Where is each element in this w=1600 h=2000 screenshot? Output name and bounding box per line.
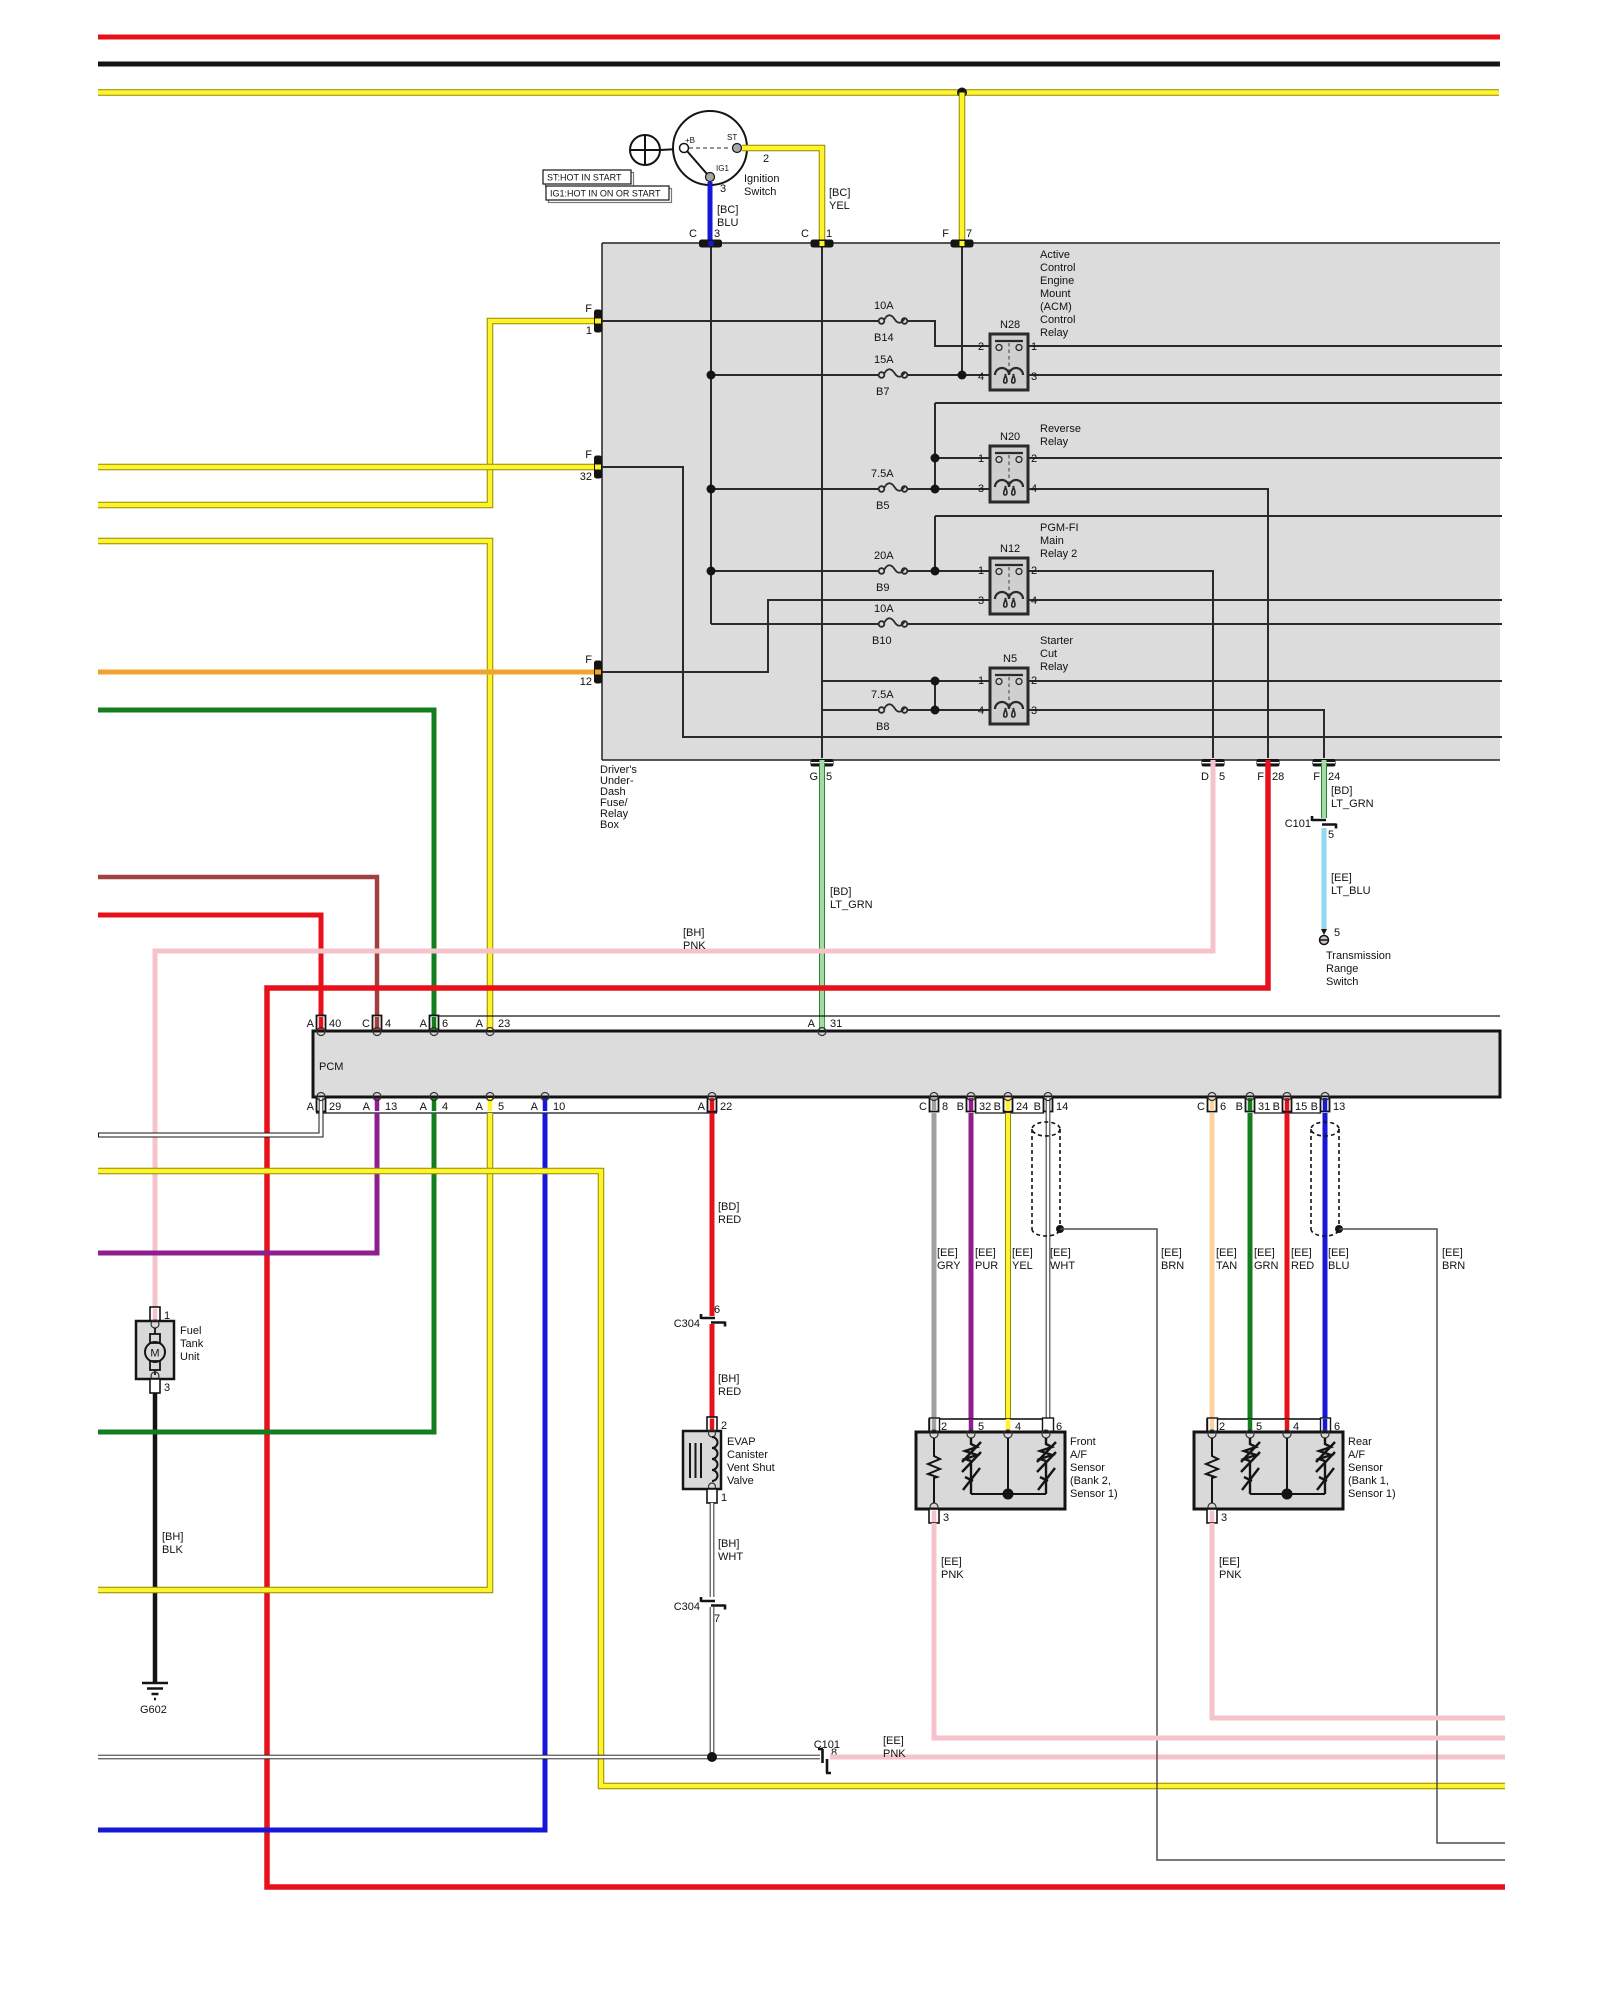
junction B9 node [931,567,940,576]
svg-text:Unit: Unit [180,1351,200,1363]
svg-text:[EE]: [EE] [1328,1247,1349,1259]
svg-text:WHT: WHT [1050,1260,1075,1272]
wire color labels [EE] row [937,1247,1465,1272]
wire: G5 to PCM A31 (LT_GRN) [819,763,825,1031]
svg-text:[BH]: [BH] [162,1531,183,1543]
label: PGM-FI Main Relay 2 [1040,522,1079,560]
svg-text:N28: N28 [1000,319,1020,331]
svg-text:TAN: TAN [1216,1260,1237,1272]
svg-text:Ignition: Ignition [744,173,779,185]
battery positive symbol [630,135,679,165]
svg-text:LT_GRN: LT_GRN [830,899,873,911]
svg-text:3: 3 [714,228,720,240]
svg-text:Valve: Valve [727,1475,754,1487]
svg-text:F: F [942,228,949,240]
wire: F32 feed (YEL) [98,464,594,471]
svg-text:2: 2 [1031,675,1037,687]
wire: F7 vertical feed [961,247,963,375]
wire: N20 pin1 feed [935,457,990,459]
wire: PCM A23 feed (YEL) from left edge [98,541,490,1031]
svg-text:[EE]: [EE] [1331,872,1352,884]
svg-text:BLK: BLK [162,1544,183,1556]
svg-text:WHT: WHT [718,1551,743,1563]
fuse 15A B7 [874,354,907,398]
wire: B13 to rear sensor pin6 (BLU) [1323,1113,1328,1432]
label: Rear A/F Sensor (Bank 1, Sensor 1) [1348,1436,1396,1500]
wire: F1 to fuse B14 row [602,320,879,322]
wire: B7 row C3 to N28 pin4 [711,374,990,376]
svg-text:[EE]: [EE] [975,1247,996,1259]
svg-text:2: 2 [1031,453,1037,465]
svg-text:15: 15 [1295,1101,1307,1113]
switch lever +B to IG1 [687,151,707,174]
svg-text:10A: 10A [874,300,894,312]
svg-text:Tank: Tank [180,1338,204,1350]
svg-text:F: F [1257,771,1264,783]
label: Starter Cut Relay [1040,635,1073,673]
label: Transmission Range Switch [1326,950,1391,988]
svg-text:C: C [801,228,809,240]
svg-text:Canister: Canister [727,1449,768,1461]
svg-text:Rear: Rear [1348,1436,1372,1448]
svg-text:IG1:HOT IN ON OR START: IG1:HOT IN ON OR START [550,189,661,199]
svg-text:40: 40 [329,1018,341,1030]
wire: B8 row to N5 pin4 [822,709,990,711]
shield around front WHT wire [1032,1122,1060,1236]
shield around rear BLU wire [1311,1122,1339,1236]
svg-text:Transmission: Transmission [1326,950,1391,962]
svg-text:22: 22 [720,1101,732,1113]
svg-text:4: 4 [978,705,984,717]
rear sensor pin 3 [1207,1509,1227,1524]
svg-text:GRY: GRY [937,1260,961,1272]
svg-text:(Bank 2,: (Bank 2, [1070,1475,1111,1487]
PCM bottom pin C8 [919,1093,948,1114]
PCM bottom pin B24 [994,1093,1029,1114]
svg-text:[EE]: [EE] [1050,1247,1071,1259]
svg-text:Reverse: Reverse [1040,423,1081,435]
PCM bottom pin A4 [420,1093,448,1114]
svg-text:ST:HOT IN START: ST:HOT IN START [547,173,622,183]
ignition switch body [673,111,747,185]
wire: F32 internal row to edge [602,467,1502,737]
svg-text:Cut: Cut [1040,648,1057,660]
wire: battery hot bus (RED) [98,35,1500,40]
relay N12 (PGM-FI main relay 2) [978,543,1037,614]
svg-text:31: 31 [830,1018,842,1030]
svg-text:1: 1 [978,675,984,687]
fuse 10A B10 [872,603,907,647]
svg-text:Relay: Relay [1040,661,1069,673]
svg-text:C304: C304 [674,1318,700,1330]
svg-text:IG1: IG1 [716,164,729,173]
svg-text:3: 3 [978,595,984,607]
terminal 5 of transmission range switch [1320,927,1341,945]
PCM top pin A6 [420,1016,448,1036]
wire: fuel tank pin3 to ground G602 (BLK) [153,1393,158,1682]
PCM bottom pin B14 [1034,1093,1069,1114]
PCM bottom pin A5 [476,1093,504,1114]
svg-text:23: 23 [498,1018,510,1030]
svg-text:Switch: Switch [1326,976,1358,988]
svg-text:13: 13 [1333,1101,1345,1113]
wire: B15 to rear sensor pin4 (RED) [1285,1113,1290,1432]
wire: A29 to left edge (WHT) [98,1113,321,1135]
wire: rear pin3 to right edge (PNK) [1212,1523,1505,1718]
wire: C8 to front sensor pin2 (GRY) [932,1113,937,1432]
wire: C101-8 to right edge (PNK) [830,1755,1505,1760]
svg-text:1: 1 [978,565,984,577]
svg-text:Sensor 1): Sensor 1) [1348,1488,1396,1500]
wire: IG1 to C3 (BLU) [708,182,713,243]
connector C101 pin 8 [814,1739,840,1773]
svg-text:[EE]: [EE] [1012,1247,1033,1259]
wire: N5 pin3 row to F24 [1028,710,1324,758]
svg-text:3: 3 [943,1512,949,1524]
svg-text:A: A [698,1101,706,1113]
svg-text:(Bank 1,: (Bank 1, [1348,1475,1389,1487]
svg-text:B8: B8 [876,721,889,733]
pin circles [1208,1430,1329,1511]
internal common rail pin4 [1250,1438,1325,1494]
wire: N12 pin4 row to edge [1028,599,1502,601]
svg-text:C101: C101 [1285,818,1311,830]
svg-text:A: A [808,1018,816,1030]
svg-text:GRN: GRN [1254,1260,1279,1272]
svg-text:24: 24 [1328,771,1340,783]
svg-text:A/F: A/F [1348,1449,1365,1461]
svg-text:7.5A: 7.5A [871,689,894,701]
wire: N28 pin1 row to edge [1028,345,1502,347]
wire: rear shield drain (BRN) [1339,1229,1505,1843]
wire: N20 pin2 row to edge [1028,457,1502,459]
connector G5 (box bottom) [809,759,833,783]
svg-text:[BD]: [BD] [718,1201,739,1213]
wire: yellow bus to F7 (YEL) [959,93,966,244]
svg-text:Control: Control [1040,314,1075,326]
svg-text:14: 14 [1056,1101,1068,1113]
wire: A13 to left edge (PUR) [98,1113,377,1253]
svg-text:Vent Shut: Vent Shut [727,1462,775,1474]
junction: WHT splice [707,1752,717,1762]
connector D5 (box bottom) [1201,759,1225,783]
wire: F12 feed (ORN) [98,670,594,675]
svg-text:15A: 15A [874,354,894,366]
connector C3 (box top) [689,228,722,248]
connector F32 (box left) [580,449,602,483]
shield drain dot (front) [1056,1225,1064,1233]
svg-text:Sensor: Sensor [1348,1462,1383,1474]
wire: B5 row C3 to N20 pin3 [711,488,990,490]
svg-text:PNK: PNK [941,1569,964,1581]
wire: A5 to left edge (YEL) [98,1113,490,1590]
junction B5 node [931,485,940,494]
svg-text:A: A [531,1101,539,1113]
svg-text:A: A [307,1101,315,1113]
svg-text:LT_BLU: LT_BLU [1331,885,1371,897]
internal resistor pin2-pin3 [1206,1438,1218,1503]
PCM connector strip lines [429,1015,1500,1017]
svg-text:2: 2 [763,153,769,165]
wire: F24 to C101 (LT_GRN) [1321,763,1327,818]
svg-text:PNK: PNK [883,1748,906,1760]
wire: N5 pin2 row to edge [1028,680,1502,682]
svg-text:B: B [1273,1101,1280,1113]
connector C101 pin 5 [1285,816,1336,841]
shield drain dot (rear) [1335,1225,1343,1233]
svg-text:BLU: BLU [1328,1260,1349,1272]
fuse 7.5A B8 [871,689,907,733]
svg-text:A: A [420,1101,428,1113]
svg-text:8: 8 [942,1101,948,1113]
junction dot pin4 common [1003,1489,1014,1500]
svg-text:Range: Range [1326,963,1358,975]
svg-text:PCM: PCM [319,1061,343,1073]
connector F1 (box left) [585,303,602,337]
wire: left edge to C101-8 (WHT) [98,1755,820,1760]
strip wire stubs [930,1418,1054,1433]
wire: front shield drain (BRN) [1060,1229,1505,1860]
wire: C304-7 down to splice (WHT) [710,1607,715,1757]
svg-text:5: 5 [1334,927,1340,939]
internal sensing element pin5 [1241,1438,1260,1494]
svg-text:Relay: Relay [1040,327,1069,339]
svg-text:Fuel: Fuel [180,1325,201,1337]
svg-text:Starter: Starter [1040,635,1073,647]
wire: B5 node branch row to edge [935,403,1502,487]
svg-text:2: 2 [978,341,984,353]
label: EVAP Canister Vent Shut Valve [727,1436,775,1487]
svg-text:B: B [1311,1101,1318,1113]
wire: C6 to rear sensor pin2 (TAN) [1210,1113,1215,1432]
svg-text:7.5A: 7.5A [871,468,894,480]
PCM bottom pin C6 [1197,1093,1226,1114]
svg-text:1: 1 [721,1492,727,1504]
junction C3/B9 [707,567,716,576]
connector C304 pin 6 [674,1304,725,1330]
wire: A10 to left edge (BLU) [98,1113,545,1830]
svg-text:Box: Box [600,819,619,831]
EVAP canister vent shut valve body [683,1430,721,1490]
label: Active Control Engine Mount (ACM) Control Relay [1040,249,1075,339]
svg-text:[BC]: [BC] [717,204,738,216]
dashed link +B to ST [689,147,731,149]
svg-text:Sensor: Sensor [1070,1462,1105,1474]
relay N20 (reverse relay) [978,431,1037,502]
svg-text:3: 3 [1031,705,1037,717]
svg-text:C304: C304 [674,1601,700,1613]
svg-text:[EE]: [EE] [941,1556,962,1568]
PCM body [313,1031,1500,1097]
svg-text:N5: N5 [1003,653,1017,665]
svg-text:[EE]: [EE] [1442,1247,1463,1259]
fuel tank unit pin 1 [150,1307,170,1322]
svg-text:A: A [307,1018,315,1030]
wire: C304 to EVAP valve pin 2 (RED) [710,1324,715,1418]
svg-text:1: 1 [978,453,984,465]
svg-text:[EE]: [EE] [1219,1556,1240,1568]
note box: IG1:HOT IN ON OR START [549,189,672,203]
svg-text:F: F [585,303,592,315]
svg-text:B7: B7 [876,386,889,398]
svg-text:F: F [1313,771,1320,783]
wire: B14 to front sensor pin6 (WHT) [1046,1113,1051,1432]
svg-text:Sensor 1): Sensor 1) [1070,1488,1118,1500]
svg-text:20A: 20A [874,550,894,562]
wire: F12 to N12 pin3 [602,600,990,672]
connector F7 (box top) [942,228,973,248]
svg-text:6: 6 [1220,1101,1226,1113]
svg-text:Control: Control [1040,262,1075,274]
svg-text:5: 5 [1219,771,1225,783]
svg-text:32: 32 [979,1101,991,1113]
svg-text:28: 28 [1272,771,1284,783]
PCM top pin C4 [362,1016,391,1036]
svg-text:B: B [1034,1101,1041,1113]
svg-text:7: 7 [966,228,972,240]
wire: B14 fuse output jog to N28 pin2 [907,321,990,346]
wire: B9 row C3 to N12 pin1 [711,570,990,572]
wire: PCM A40 feed (RED) [98,915,321,1031]
svg-text:B: B [994,1101,1001,1113]
note box: ST:HOT IN START [546,173,634,187]
svg-text:PNK: PNK [683,940,706,952]
svg-text:[BH]: [BH] [683,927,704,939]
connector F24 (box bottom) [1313,759,1341,783]
wire: C101 to transmission range switch (LT_BLU) [1322,828,1327,930]
svg-text:4: 4 [385,1018,391,1030]
wire: left edge loop via C101-8 (YEL) [98,1171,1505,1786]
svg-text:3: 3 [1221,1512,1227,1524]
internal sensing element pin5 [962,1438,981,1494]
svg-text:3: 3 [978,483,984,495]
svg-text:Main: Main [1040,535,1064,547]
svg-text:B14: B14 [874,332,894,344]
svg-text:A: A [476,1101,484,1113]
svg-text:F: F [585,449,592,461]
svg-text:RED: RED [718,1214,741,1226]
svg-text:Front: Front [1070,1436,1096,1448]
svg-text:[BD]: [BD] [1331,785,1352,797]
wire: C1 vertical feed to G5 [821,247,823,758]
svg-text:Active: Active [1040,249,1070,261]
wire: ST to C1 (YEL) [742,148,822,243]
svg-text:[BC]: [BC] [829,187,850,199]
svg-text:4: 4 [978,371,984,383]
wire: B31 to rear sensor pin5 (GRN) [1248,1113,1253,1432]
svg-text:PUR: PUR [975,1260,998,1272]
svg-text:4: 4 [1031,483,1037,495]
svg-text:[BD]: [BD] [830,886,851,898]
svg-text:LT_GRN: LT_GRN [1331,798,1374,810]
junction N5 pin4/B8 [931,706,940,715]
svg-text:N12: N12 [1000,543,1020,555]
svg-text:M: M [150,1348,159,1360]
wire: B10 row to edge [711,623,1502,625]
svg-text:B10: B10 [872,635,892,647]
svg-text:Switch: Switch [744,186,776,198]
svg-text:10: 10 [553,1101,565,1113]
svg-text:PNK: PNK [1219,1569,1242,1581]
wire: A22 to C304 (RED) [710,1113,715,1316]
rear sensor connector strip [1207,1419,1328,1432]
svg-text:(ACM): (ACM) [1040,301,1072,313]
svg-text:YEL: YEL [1012,1260,1033,1272]
wire: D5 to fuel tank unit (PNK) [155,763,1213,1307]
svg-text:EVAP: EVAP [727,1436,756,1448]
svg-text:N20: N20 [1000,431,1020,443]
svg-text:[BH]: [BH] [718,1373,739,1385]
fuel tank unit pin 3 [150,1379,170,1394]
svg-text:RED: RED [718,1386,741,1398]
terminal ST [733,144,742,153]
fuel tank unit body [136,1320,174,1380]
svg-text:C: C [1197,1101,1205,1113]
svg-text:BRN: BRN [1442,1260,1465,1272]
svg-text:F: F [585,654,592,666]
front sensor body [916,1432,1065,1509]
svg-text:12: 12 [580,676,592,688]
front sensor pin 3 [929,1509,949,1524]
svg-text:3: 3 [164,1382,170,1394]
svg-text:13: 13 [385,1101,397,1113]
svg-text:Mount: Mount [1040,288,1071,300]
PCM bottom pin B32 [957,1093,992,1114]
PCM bottom pin A29 [307,1093,342,1114]
svg-text:Relay 2: Relay 2 [1040,548,1077,560]
EVAP valve pin 2 [707,1417,727,1432]
svg-text:7: 7 [714,1613,720,1625]
label: Driver's Under-Dash Fuse/Relay Box [600,764,637,831]
wire: ground bus (BLK) [98,62,1500,67]
label: Reverse Relay [1040,423,1081,448]
svg-text:G: G [809,771,818,783]
internal sensing element pin6 [1037,1438,1056,1494]
fuse 7.5A B5 [871,468,907,512]
PCM top pin A40 [307,1016,342,1036]
wire: C3 vertical feed [710,247,712,624]
wire: N5 pin1 feed from C1 vertical [822,680,990,682]
svg-text:1: 1 [1031,341,1037,353]
wire: PCM C4 feed (dark RED) [98,877,377,1031]
svg-text:[EE]: [EE] [1216,1247,1237,1259]
PCM top pin A23 [476,1017,511,1036]
svg-text:YEL: YEL [829,200,850,212]
connector C1 (box top) [801,228,833,248]
wire: B32 to front sensor pin5 (PUR) [969,1113,974,1432]
svg-text:5: 5 [826,771,832,783]
svg-text:[EE]: [EE] [1254,1247,1275,1259]
svg-text:6: 6 [714,1304,720,1316]
svg-text:24: 24 [1016,1101,1028,1113]
internal common rail pin4 [971,1438,1046,1494]
svg-text:[EE]: [EE] [883,1735,904,1747]
junction C3/B7 [707,371,716,380]
svg-text:A: A [420,1018,428,1030]
wire: N5 pin1/pin4 tie [934,681,936,710]
svg-text:4: 4 [1031,595,1037,607]
junction C3/B5 [707,485,716,494]
PCM bottom pin A13 [363,1093,398,1114]
svg-text:1: 1 [826,228,832,240]
svg-text:RED: RED [1291,1260,1314,1272]
wire: PCM A6 feed (GRN) from left edge [98,710,434,1031]
PCM bottom pin B13 [1311,1093,1346,1114]
svg-text:C: C [362,1018,370,1030]
wire: ignition hot bus (YEL) [98,89,1499,96]
ground G602 [142,1683,168,1699]
svg-text:6: 6 [442,1018,448,1030]
